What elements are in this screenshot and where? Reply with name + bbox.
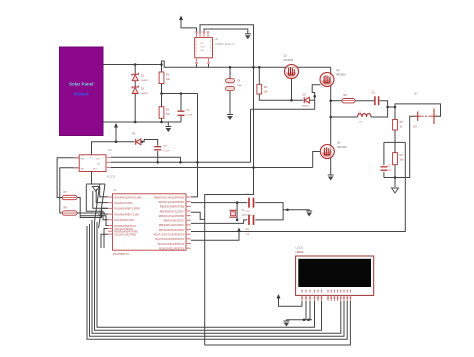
svg-text:10k: 10k [166, 114, 171, 116]
wire C7 bottom to net A [157, 151, 159, 162]
wire L1 to output node [371, 107, 388, 117]
op-amp U2 pwm driver [195, 38, 213, 58]
inductor L1 [358, 114, 372, 117]
svg-text:C3: C3 [246, 228, 250, 231]
svg-text:RB1/IOC/AN10/PORTB1: RB1/IOC/AN10/PORTB1 [159, 201, 185, 204]
capacitor C3 [374, 96, 376, 105]
junction crystal top [236, 201, 239, 204]
resistor R3 [257, 84, 262, 94]
transistor Q3 IRF3906 [320, 145, 334, 159]
svg-text:R4: R4 [400, 154, 404, 157]
junction U3 riser net A [179, 161, 182, 164]
wire crystal top to C6 gnd [255, 203, 309, 211]
wire bus line 1 to LCD RS [97, 222, 315, 327]
svg-text:60Watt: 60Watt [74, 91, 89, 96]
svg-text:RA0/AN0/ULPWU/C12IN0-: RA0/AN0/ULPWU/C12IN0- [115, 196, 143, 199]
svg-text:C3: C3 [372, 92, 376, 95]
svg-text:1uF: 1uF [388, 170, 392, 172]
svg-text:C1: C1 [187, 109, 191, 112]
junction R6 switch node [329, 99, 332, 102]
svg-text:12V: 12V [413, 127, 418, 129]
wire U3 gnd pin stub [91, 172, 93, 185]
svg-text:RB5/IOC/AN13/T1G: RB5/IOC/AN13/T1G [163, 220, 184, 223]
crystal X1 [230, 209, 237, 211]
wire battery minus to U1 sense [191, 178, 405, 232]
wire solar panel + output with jog [104, 61, 197, 67]
resistor R1 [159, 72, 164, 84]
svg-text:Q3: Q3 [337, 141, 341, 145]
wire U2 bottom pins to rail [197, 58, 209, 68]
svg-text:10k: 10k [166, 79, 171, 81]
microcontroller U1 PIC16F877A [113, 194, 187, 250]
wire U2 gnd loop [204, 29, 248, 38]
junction crystal bottom [236, 219, 239, 222]
wire LCD power [279, 298, 303, 306]
svg-text:RC0/T1OSO/T1CKI/PORTC0: RC0/T1OSO/T1CKI/PORTC0 [154, 235, 185, 237]
junction output node b [394, 106, 397, 109]
junction D3 knot [313, 95, 316, 98]
svg-text:22p: 22p [246, 211, 250, 213]
svg-text:10k: 10k [264, 91, 269, 93]
resistor R5 [393, 120, 398, 131]
junction V2 rail [252, 66, 255, 69]
wire funnel diagonal inner [95, 184, 100, 222]
wire R5 bottom lead [394, 130, 396, 142]
wire LCD ground rail [286, 320, 312, 321]
svg-text:RB3/PGM/IOC/C12IN2-: RB3/PGM/IOC/C12IN2- [160, 211, 184, 213]
junction R2 bottom rail [160, 121, 163, 124]
junction D2 bottom rail [134, 121, 137, 124]
svg-text:RA3/AN3/VREF+/C1IN+: RA3/AN3/VREF+/C1IN+ [115, 213, 141, 216]
wire R6 branch from switch node [331, 100, 342, 102]
capacitor C1 0.1uF [178, 110, 185, 112]
svg-text:R3: R3 [264, 86, 268, 89]
svg-text:100u: 100u [237, 85, 243, 87]
svg-text:X1: X1 [242, 209, 246, 212]
wire funnel top edge [86, 183, 105, 185]
capacitor C8 22p [248, 198, 250, 208]
power arrow U1 mclr [237, 228, 241, 233]
diode D4 1N4007 [136, 139, 141, 145]
wire R1 leads [161, 65, 163, 94]
svg-text:D4: D4 [132, 133, 136, 136]
ground U3 open triangle [92, 187, 99, 192]
svg-text:10k: 10k [400, 160, 405, 162]
wire bundle line 4 [80, 214, 108, 225]
svg-text:1k: 1k [400, 127, 403, 129]
junction divider mid [160, 92, 163, 95]
svg-text:IRF3906: IRF3906 [284, 59, 294, 62]
ground U2 loop [245, 33, 251, 35]
power arrow LCD vdd [277, 294, 281, 299]
junction output node a [386, 106, 389, 109]
svg-text:OSC2/CLKOUT/RA6: OSC2/CLKOUT/RA6 [115, 234, 137, 237]
wire R8 to bundle [77, 213, 108, 214]
svg-text:LM016L: LM016L [296, 252, 305, 254]
wire U3 in- to R8 [60, 168, 79, 213]
svg-text:C5: C5 [388, 165, 392, 168]
wire bus line 6 to LCD D7 [205, 301, 351, 345]
wire U1 mclr power arrow [191, 232, 239, 241]
svg-text:U2: U2 [215, 37, 219, 41]
wire U3 pin stub riser [111, 157, 181, 162]
ground bottom rail [165, 126, 171, 128]
display LCD1 LM016L [296, 256, 374, 295]
wire R5 top lead [394, 107, 396, 120]
wire C1 leads [180, 94, 182, 123]
junction D1 top [134, 63, 137, 66]
wire sense net A (U3/C7/divider) [111, 161, 251, 163]
svg-text:OSC1/CLKIN/RA7: OSC1/CLKIN/RA7 [115, 228, 134, 231]
diode D2 1N4007 [132, 86, 138, 89]
current sensor U3 ACS712 [79, 155, 106, 172]
svg-text:RB0/INT/IOC/AN12/PORTB0: RB0/INT/IOC/AN12/PORTB0 [154, 196, 184, 199]
wire funnel diagonal right [99, 184, 105, 228]
wire U1 osc stub a [104, 229, 108, 249]
svg-text:1N4007: 1N4007 [141, 80, 149, 82]
wire vertical V1 [250, 109, 252, 162]
svg-text:RC3/SCK/SCL/PORTC3: RC3/SCK/SCL/PORTC3 [159, 248, 185, 250]
junction R1 top [160, 63, 163, 66]
wire U2 power feed [181, 20, 197, 38]
ground load box open triangle [392, 188, 399, 193]
svg-text:VIN: VIN [81, 159, 85, 161]
wire R3 top lead [258, 67, 260, 84]
wire bus line 4 to LCD D5 [90, 224, 345, 336]
svg-text:VCC: VCC [96, 159, 101, 161]
wire U3 vcc to D4 C7 [92, 140, 158, 155]
power +5V arrow U3 [114, 123, 118, 128]
wire battery - down to load box [405, 116, 417, 177]
svg-text:RE0/RD/AN5/PORTE0: RE0/RD/AN5/PORTE0 [115, 231, 139, 234]
wire bundle line 3 [86, 185, 108, 220]
junction LCD gnd rail [303, 319, 306, 322]
wire LCD vss stub [305, 301, 307, 320]
wire crystal branch [236, 203, 238, 220]
wire U3 in+ to R7 [57, 158, 79, 198]
resistor R6 [342, 99, 355, 103]
svg-text:B1: B1 [415, 92, 419, 96]
wire bus line 2 to LCD E [95, 222, 322, 330]
svg-text:D1: D1 [141, 75, 145, 78]
wire U3 out to Q3 gate net [111, 167, 313, 169]
capacitor C4 100u [226, 79, 235, 83]
wire LCD vdd stub [301, 301, 303, 306]
wire ground stub below load box [394, 178, 396, 188]
ground crystal caps [306, 210, 312, 212]
wire Q3 gate [313, 152, 320, 168]
svg-text:1N4007: 1N4007 [302, 106, 310, 108]
wire Q2 Q3 column [330, 67, 332, 158]
svg-text:VIN: VIN [81, 169, 85, 171]
wire D3 to knot [309, 99, 314, 101]
wire R3 bottom to D3 [259, 94, 303, 100]
svg-text:RB7/ICSPDAT/IOC/PGD: RB7/ICSPDAT/IOC/PGD [159, 229, 185, 232]
wire crystal bottom to gnd node [255, 210, 283, 220]
svg-text:R8: R8 [64, 207, 68, 210]
svg-text:1N4007: 1N4007 [141, 93, 149, 95]
svg-text:R7: R7 [64, 191, 68, 194]
svg-text:RC2/CCP1/P1A/PORTC2: RC2/CCP1/P1A/PORTC2 [158, 243, 185, 246]
transistor Q1 IRF3906 [285, 65, 299, 79]
wire bottom rail ground stub [167, 122, 169, 127]
wire U1 to crystal top [191, 202, 247, 204]
svg-text:RB2/IOC/AN8/PORTB2: RB2/IOC/AN8/PORTB2 [160, 206, 185, 209]
wire C4 leads [229, 67, 231, 114]
wire L1 branch [331, 116, 358, 118]
wire +5V arrow stem U3 [115, 127, 117, 142]
wire load box top [384, 141, 405, 143]
svg-text:RB4/IOC/AN11/PORTB4: RB4/IOC/AN11/PORTB4 [159, 215, 185, 218]
junction L1 switch node [329, 116, 332, 119]
svg-text:D3: D3 [303, 94, 307, 97]
wire staircase to U1 pin 2 [96, 189, 108, 203]
junction R3 rail [258, 66, 261, 69]
wire R2 leads [161, 94, 163, 123]
svg-text:RB6/ICSPCLK/IOC/PGC: RB6/ICSPCLK/IOC/PGC [159, 225, 185, 227]
svg-text:10u: 10u [359, 122, 363, 124]
wire bus line 5 to LCD D6 [87, 226, 347, 339]
svg-text:RA1/AN1/C12IN1-: RA1/AN1/C12IN1- [115, 202, 134, 205]
wire output node to battery + [395, 104, 441, 116]
wire C3 to output node [380, 101, 395, 107]
capacitor C9 22p [248, 215, 250, 225]
wire D3 knot riser to Q2 gate [312, 85, 320, 110]
wire U2 loop to V2 down to bus [200, 25, 254, 345]
svg-text:RA4/T0CKI/C1OUT: RA4/T0CKI/C1OUT [115, 219, 136, 222]
junction C1 top [180, 92, 183, 95]
wire Q3 source to ground [330, 159, 332, 176]
svg-text:RA5/AN4/SS/C2OUT: RA5/AN4/SS/C2OUT [115, 225, 137, 228]
wire staircase to U1 pin 1 [100, 187, 108, 197]
svg-text:C4: C4 [237, 80, 241, 83]
junction Q1 gate [290, 99, 293, 102]
svg-text:VO: VO [97, 164, 100, 166]
resistor R2 [159, 107, 164, 119]
svg-text:U1: U1 [113, 188, 117, 192]
svg-text:R2: R2 [166, 108, 170, 111]
ground LCD vss [283, 320, 289, 322]
svg-text:0.1uF: 0.1uF [187, 115, 193, 117]
svg-text:Q1: Q1 [284, 54, 288, 58]
junction osc gnd node [286, 209, 289, 212]
svg-text:R1: R1 [166, 74, 170, 77]
svg-text:0.1uF: 0.1uF [164, 151, 170, 153]
wire U1 osc stub b [101, 234, 108, 248]
resistor R8 [62, 211, 77, 215]
capacitor C7 0.1uF [154, 146, 161, 148]
wire load box right [404, 142, 406, 177]
solar panel module 60W [60, 47, 104, 136]
wire R7 to bundle [77, 198, 108, 218]
wire U1 staircase to bus [191, 212, 205, 219]
wire R4 leads [394, 142, 396, 177]
junction C4 rail [229, 66, 232, 69]
ground Q3 source [328, 174, 334, 176]
wire load box bottom [384, 177, 405, 179]
wire feedback divider to U1 [191, 94, 198, 197]
svg-text:ucl842U Pulse-Tx: ucl842U Pulse-Tx [215, 42, 236, 46]
wire divider mid node [162, 93, 198, 95]
junction feedback net A [196, 161, 199, 164]
wire load box left / C5 leads [383, 142, 385, 177]
resistor R4 [393, 153, 398, 165]
svg-text:Solar Panel: Solar Panel [69, 81, 94, 86]
junction LCD vss gnd [307, 319, 310, 322]
battery B1 12V [417, 112, 419, 122]
diode D1 1N4007 [132, 73, 138, 76]
svg-text:D2: D2 [141, 88, 145, 91]
wire top rail under U2 to Q2 [197, 66, 331, 68]
svg-text:Q2: Q2 [336, 68, 340, 72]
diode D3 1N4007 [304, 97, 309, 103]
svg-text:PIC16F877A: PIC16F877A [113, 252, 129, 256]
junction C7 net A [156, 161, 159, 164]
resistor R7 [62, 195, 77, 199]
power +12V arrow top [179, 16, 183, 21]
svg-text:U3: U3 [108, 148, 112, 152]
svg-text:RC1/T1OSI/CCP2/PORTC1: RC1/T1OSI/CCP2/PORTC1 [155, 239, 184, 241]
junction D4 cathode [141, 141, 144, 144]
junction V2 gate net [252, 166, 255, 169]
wire solar panel - bottom rail [104, 121, 182, 123]
svg-text:ACS712: ACS712 [107, 176, 116, 179]
wire bus line 3 to LCD D4 [92, 220, 341, 333]
transistor Q2 IRF3906 [320, 73, 334, 87]
wire Q1 gate down [291, 79, 293, 101]
svg-text:CRYSTAL: CRYSTAL [242, 214, 253, 217]
svg-text:IRF3906: IRF3906 [336, 73, 346, 76]
ground C4 [227, 114, 233, 116]
svg-text:IRF3906: IRF3906 [337, 146, 347, 149]
capacitor C5 1uF [380, 166, 387, 168]
svg-text:22p: 22p [246, 234, 250, 236]
junction load box bottom [394, 176, 397, 179]
junction U3 vcc arrow [115, 141, 118, 144]
wire net B to D3 knot [251, 108, 315, 110]
svg-text:RA2/AN2/VREF-/CVREF: RA2/AN2/VREF-/CVREF [115, 208, 141, 211]
svg-text:LCD1: LCD1 [296, 246, 304, 250]
svg-text:R5: R5 [400, 121, 404, 124]
svg-text:C7: C7 [164, 145, 168, 148]
wire LCD vee stub [309, 301, 311, 320]
wire U1 to crystal bottom [191, 220, 247, 224]
svg-text:R6: R6 [344, 94, 348, 97]
wire D1 D2 column [134, 65, 136, 123]
wire R6 to C3 [355, 100, 374, 102]
wire staircase to U1 pin 3 [93, 191, 108, 208]
